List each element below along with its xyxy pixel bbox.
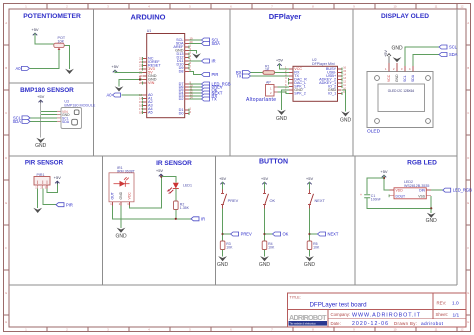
svg-text:VCC: VCC (128, 192, 132, 200)
svg-text:DOUT: DOUT (396, 194, 406, 198)
svg-text:10K: 10K (268, 246, 275, 250)
svg-text:1/1: 1/1 (453, 312, 460, 318)
svg-text:Sheet:: Sheet: (436, 312, 448, 317)
svg-text:LED1: LED1 (183, 184, 192, 188)
svg-text:28: 28 (139, 81, 143, 85)
svg-text:OLED: OLED (367, 129, 381, 135)
svg-text:H: H (5, 320, 7, 324)
svg-text:GND: GND (395, 74, 399, 82)
svg-text:+5V: +5V (306, 176, 314, 181)
svg-text:SDA: SDA (212, 41, 221, 46)
svg-text:1K: 1K (265, 67, 270, 71)
svg-text:D: D (5, 156, 7, 160)
svg-text:LED_RGB: LED_RGB (453, 188, 472, 193)
svg-text:18: 18 (139, 110, 143, 114)
svg-text:100nF: 100nF (371, 198, 381, 202)
svg-text:H: H (467, 320, 469, 324)
svg-text:2020-12-06: 2020-12-06 (352, 321, 388, 327)
svg-text:WS2812B-3535: WS2812B-3535 (404, 184, 429, 188)
svg-text:GND: GND (426, 218, 438, 224)
svg-text:+5V: +5V (261, 176, 269, 181)
svg-text:GND: GND (304, 262, 316, 268)
svg-text:A0: A0 (15, 66, 21, 71)
svg-text:E: E (467, 201, 469, 205)
svg-text:SCL: SCL (403, 75, 407, 82)
svg-text:REV:: REV: (437, 301, 447, 306)
svg-text:OLED I2C 128X64: OLED I2C 128X64 (388, 89, 415, 93)
svg-text:Drawn By:: Drawn By: (394, 321, 417, 326)
svg-text:DIN: DIN (419, 189, 425, 193)
svg-text:A: A (5, 21, 7, 25)
svg-text:PREV: PREV (228, 198, 239, 203)
svg-text:GND: GND (276, 116, 288, 122)
svg-text:D8: D8 (179, 70, 184, 74)
svg-text:+5V: +5V (31, 27, 39, 32)
svg-text:VDD: VDD (396, 189, 404, 193)
svg-text:G: G (467, 291, 469, 295)
svg-text:D2: D2 (179, 97, 184, 101)
svg-text:Company:: Company: (331, 312, 351, 317)
svg-text:OK: OK (270, 198, 276, 203)
svg-text:adrirobot: adrirobot (421, 321, 444, 327)
svg-text:1.0: 1.0 (452, 301, 459, 307)
svg-text:VSS: VSS (418, 194, 426, 198)
svg-text:BMP180 SENSOR: BMP180 SENSOR (20, 87, 74, 94)
svg-text:10K: 10K (226, 246, 233, 250)
svg-text:SDA: SDA (449, 52, 458, 57)
svg-text:GND: GND (217, 262, 229, 268)
svg-text:A: A (467, 21, 469, 25)
svg-text:DFPLayer test board: DFPLayer test board (309, 301, 367, 308)
svg-text:PIR: PIR (212, 72, 219, 77)
svg-text:GND: GND (35, 143, 47, 149)
svg-text:+: + (360, 193, 362, 197)
svg-text:SDA: SDA (411, 74, 415, 82)
svg-text:+5V: +5V (111, 64, 119, 69)
svg-text:IO_1: IO_1 (328, 92, 336, 96)
svg-text:BMP180 MODULE: BMP180 MODULE (64, 104, 95, 108)
svg-text:GND: GND (391, 46, 403, 52)
svg-text:C: C (467, 111, 469, 115)
svg-text:VCC: VCC (387, 74, 391, 82)
svg-text:DFPlayer: DFPlayer (269, 12, 302, 21)
svg-text:E: E (5, 201, 7, 205)
svg-text:Altoparlante: Altoparlante (246, 97, 276, 103)
svg-text:A0: A0 (106, 93, 112, 98)
svg-text:10K: 10K (58, 40, 65, 44)
svg-text:ADRIROBOT: ADRIROBOT (289, 313, 327, 322)
svg-text:TX: TX (236, 74, 242, 79)
svg-text:PIR SENSOR: PIR SENSOR (25, 159, 64, 166)
svg-text:DISPLAY OLED: DISPLAY OLED (381, 13, 429, 20)
svg-text:WWW.ADRIROBOT.IT: WWW.ADRIROBOT.IT (352, 312, 421, 318)
svg-text:Date:: Date: (331, 321, 341, 326)
svg-text:+5V: +5V (37, 94, 45, 99)
svg-text:+5V: +5V (276, 58, 284, 63)
svg-text:PREV: PREV (241, 232, 252, 237)
svg-text:GND: GND (340, 118, 352, 124)
svg-text:G: G (5, 291, 7, 295)
svg-text:PIR: PIR (66, 202, 73, 207)
svg-text:C: C (5, 111, 7, 115)
svg-text:GND: GND (119, 191, 123, 199)
svg-text:+5V: +5V (219, 176, 227, 181)
svg-text:IR: IR (212, 59, 216, 64)
svg-text:NEXT: NEXT (315, 198, 326, 203)
svg-text:10K: 10K (313, 246, 320, 250)
svg-text:IR: IR (201, 216, 205, 221)
svg-text:GND: GND (115, 234, 127, 240)
svg-text:B: B (5, 66, 7, 70)
svg-text:U1: U1 (147, 29, 152, 33)
svg-text:ARDUINO: ARDUINO (131, 13, 166, 22)
svg-text:OK: OK (283, 232, 289, 237)
svg-text:GND: GND (259, 262, 271, 268)
svg-text:D0: D0 (179, 112, 184, 116)
svg-text:TX: TX (212, 97, 218, 102)
svg-text:The website di elettronica: The website di elettronica (290, 322, 317, 325)
svg-text:1.35K: 1.35K (180, 206, 190, 210)
svg-text:SCL: SCL (449, 45, 458, 50)
svg-text:TITLE:: TITLE: (290, 296, 301, 300)
svg-text:OUT: OUT (111, 192, 115, 199)
svg-text:IR SENSOR: IR SENSOR (156, 160, 192, 167)
svg-text:D: D (467, 156, 469, 160)
svg-text:POTENTIOMETER: POTENTIOMETER (23, 13, 81, 20)
svg-text:DFPlayer Mini: DFPlayer Mini (312, 62, 335, 66)
svg-text:B: B (467, 66, 469, 70)
svg-text:+5V: +5V (54, 175, 62, 180)
svg-text:+5V: +5V (156, 168, 164, 173)
svg-text:SPK_2: SPK_2 (294, 92, 305, 96)
svg-text:A5: A5 (148, 111, 153, 115)
svg-text:BUTTON: BUTTON (259, 159, 288, 166)
svg-text:NEXT: NEXT (328, 232, 339, 237)
svg-text:VIN: VIN (148, 81, 155, 85)
svg-text:+5V: +5V (380, 169, 388, 174)
svg-text:SDA: SDA (13, 119, 22, 124)
svg-text:SDA: SDA (62, 120, 70, 124)
svg-text:RGB LED: RGB LED (407, 159, 437, 166)
svg-text:AP: AP (266, 81, 271, 85)
